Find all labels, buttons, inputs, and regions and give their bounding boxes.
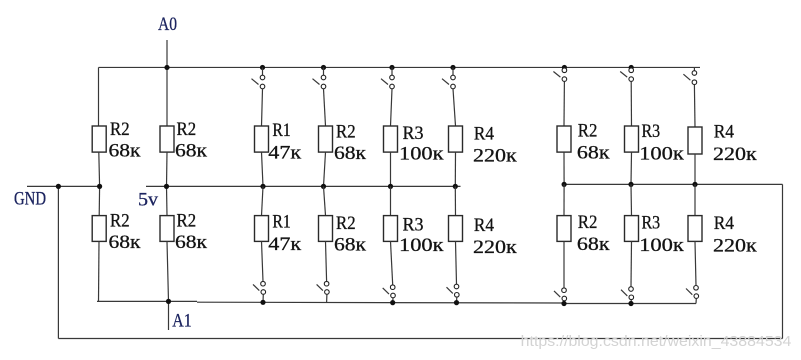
svg-text:R2: R2	[578, 121, 598, 142]
svg-text:220к: 220к	[713, 235, 758, 256]
svg-text:5v: 5v	[138, 190, 159, 211]
svg-text:68к: 68к	[175, 140, 208, 161]
svg-text:47к: 47к	[268, 234, 302, 255]
svg-text:R1: R1	[272, 212, 290, 233]
svg-text:220к: 220к	[473, 146, 518, 167]
svg-text:R2: R2	[177, 211, 197, 232]
svg-text:100к: 100к	[639, 235, 685, 256]
svg-text:R3: R3	[642, 213, 661, 234]
svg-text:R1: R1	[272, 120, 290, 141]
svg-text:68к: 68к	[334, 143, 367, 164]
svg-text:R3: R3	[642, 121, 661, 142]
svg-text:68к: 68к	[577, 234, 610, 255]
svg-text:47к: 47к	[268, 142, 302, 163]
svg-text:68к: 68к	[109, 140, 142, 161]
svg-text:R2: R2	[110, 119, 130, 140]
svg-text:68к: 68к	[109, 232, 142, 253]
svg-text:R2: R2	[110, 211, 130, 232]
svg-text:A1: A1	[172, 310, 191, 331]
svg-text:68к: 68к	[175, 232, 208, 253]
svg-text:R4: R4	[474, 215, 495, 236]
svg-text:R4: R4	[714, 122, 735, 143]
svg-text:R3: R3	[403, 123, 424, 144]
svg-text:R4: R4	[714, 213, 735, 234]
svg-text:220к: 220к	[713, 144, 758, 165]
svg-text:68к: 68к	[334, 235, 367, 256]
svg-text:R2: R2	[336, 213, 356, 234]
svg-text:R3: R3	[403, 215, 424, 236]
svg-text:100к: 100к	[399, 235, 444, 256]
svg-text:220к: 220к	[473, 237, 518, 258]
svg-text:R2: R2	[177, 119, 197, 140]
svg-text:GND: GND	[14, 189, 46, 210]
svg-text:R2: R2	[578, 212, 598, 233]
svg-text:100к: 100к	[399, 144, 444, 165]
svg-text:R4: R4	[474, 124, 495, 145]
svg-text:100к: 100к	[639, 144, 685, 165]
svg-text:68к: 68к	[577, 143, 610, 164]
svg-text:https://blog.csdn.net/weixin_4: https://blog.csdn.net/weixin_43884534	[521, 333, 792, 350]
svg-text:A0: A0	[158, 14, 177, 35]
svg-text:R2: R2	[336, 122, 356, 143]
